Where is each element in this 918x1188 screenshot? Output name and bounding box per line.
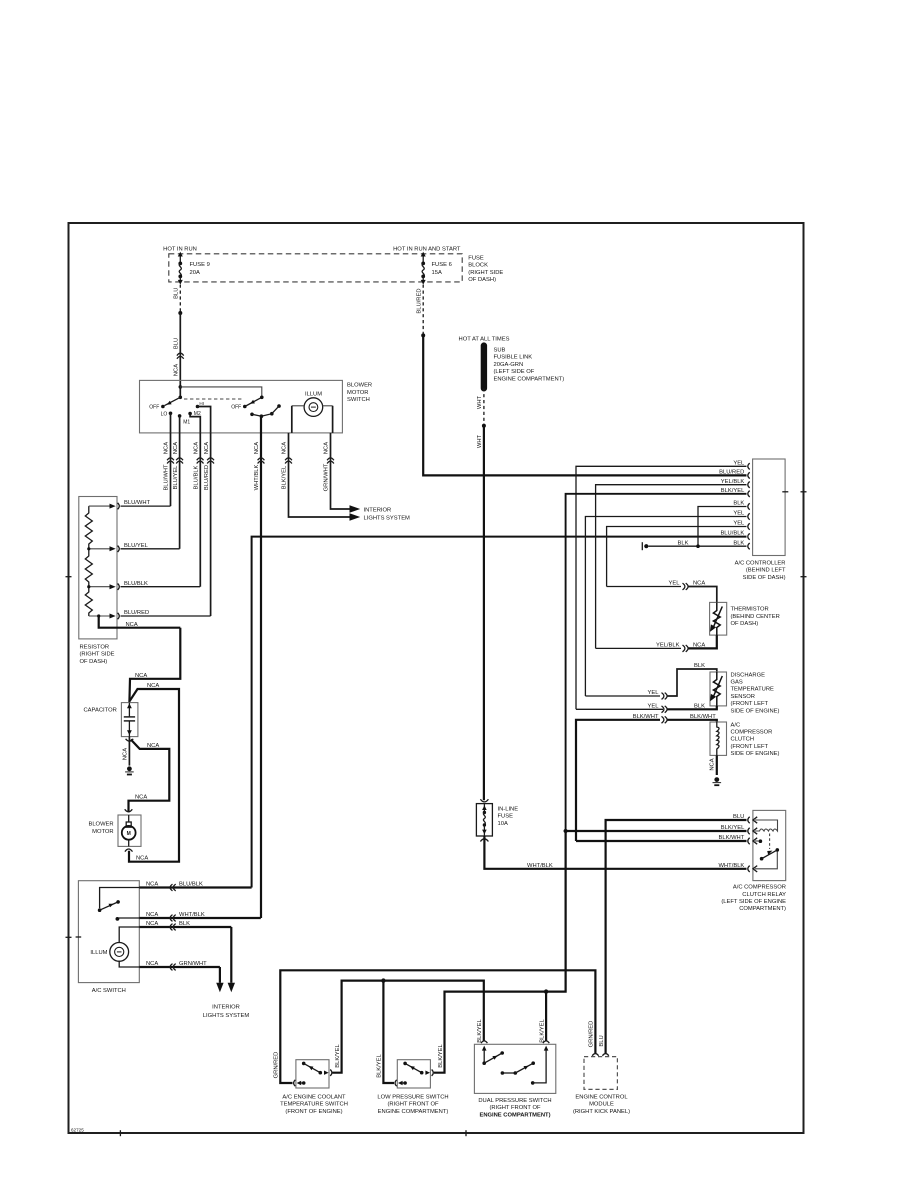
svg-text:ENGINE COMPARTMENT): ENGINE COMPARTMENT) bbox=[479, 1112, 550, 1118]
switch 2 arm bbox=[245, 397, 262, 406]
ground bbox=[127, 766, 132, 771]
svg-text:BLU: BLU bbox=[174, 338, 180, 349]
wire BLK/WHT to compressor clutch bbox=[576, 720, 660, 841]
wire BLK pin9 to ground bbox=[649, 545, 747, 547]
svg-text:NCA: NCA bbox=[204, 442, 210, 454]
terminal wire BLK bbox=[139, 926, 231, 928]
svg-text:WHT/BLK: WHT/BLK bbox=[719, 863, 745, 869]
wire WHT/BLK from switch 2 down to A/C switch bbox=[260, 416, 262, 918]
wire BLK/YEL coolant switch to dual pressure switch bbox=[333, 981, 484, 1073]
splice dot bbox=[178, 311, 182, 315]
svg-text:SIDE OF ENGINE): SIDE OF ENGINE) bbox=[731, 708, 780, 714]
svg-text:A/C CONTROLLER: A/C CONTROLLER bbox=[735, 560, 786, 566]
svg-text:TEMPERATURE: TEMPERATURE bbox=[731, 687, 775, 693]
relay pin connectors bbox=[748, 817, 750, 823]
svg-text:CLUTCH: CLUTCH bbox=[731, 737, 755, 743]
A/C compressor clutch relay box bbox=[753, 810, 786, 880]
A/C switch arm bbox=[100, 902, 119, 910]
wire NCA capacitor to motor return bbox=[129, 689, 179, 862]
svg-text:CAPACITOR: CAPACITOR bbox=[84, 708, 117, 714]
discharge gas temperature sensor box bbox=[710, 672, 727, 706]
thermistor box (behind center of dash) bbox=[710, 602, 727, 635]
svg-text:IN-LINE: IN-LINE bbox=[498, 806, 519, 812]
svg-text:BLU/WHT: BLU/WHT bbox=[124, 500, 151, 506]
svg-text:OFF: OFF bbox=[231, 405, 241, 411]
svg-text:YEL: YEL bbox=[648, 703, 660, 709]
wire BLU/YEL from M1 to resistor bbox=[179, 433, 181, 549]
svg-text:WHT/BLK: WHT/BLK bbox=[254, 464, 260, 490]
wire NCA resistor to capacitor bbox=[129, 628, 180, 703]
svg-text:YEL/BLK: YEL/BLK bbox=[721, 479, 745, 485]
svg-text:DISCHARGE: DISCHARGE bbox=[731, 672, 766, 678]
svg-text:BLU/BLK: BLU/BLK bbox=[124, 581, 148, 587]
wire GRN/WHT down to interior lights bbox=[219, 967, 221, 983]
low pressure switch contacts bbox=[403, 1062, 407, 1066]
wire BLK/YEL low pressure to dual pressure bbox=[434, 992, 546, 1073]
wire NCA capacitor to motor top bbox=[129, 740, 170, 813]
svg-text:COMPRESSOR: COMPRESSOR bbox=[731, 730, 773, 736]
svg-text:NCA: NCA bbox=[173, 442, 179, 454]
capacitor box bbox=[121, 703, 137, 737]
relay core dashed bbox=[769, 834, 771, 850]
fuse 9 arrow down through box bottom bbox=[179, 276, 181, 280]
svg-text:NCA: NCA bbox=[146, 921, 158, 927]
svg-text:LOW PRESSURE SWITCH: LOW PRESSURE SWITCH bbox=[377, 1094, 448, 1100]
capacitor symbol bbox=[128, 703, 130, 717]
svg-text:BLK: BLK bbox=[694, 663, 705, 669]
svg-text:SUB: SUB bbox=[494, 348, 506, 354]
dual pressure connector left bbox=[481, 1041, 487, 1043]
wire from LO bbox=[170, 413, 172, 433]
wire BLK/YEL relay bbox=[566, 830, 747, 832]
svg-text:INTERIOR: INTERIOR bbox=[364, 507, 392, 513]
tap terminal BLU/YEL bbox=[110, 546, 116, 551]
svg-text:MOTOR: MOTOR bbox=[347, 390, 368, 396]
svg-text:NCA: NCA bbox=[693, 643, 705, 649]
wire BLU relay to ECM bbox=[606, 820, 747, 1053]
svg-text:A/C: A/C bbox=[731, 722, 741, 728]
svg-text:WHT: WHT bbox=[477, 434, 483, 448]
junction low pressure switch bbox=[381, 978, 385, 982]
terminal wire GRN/WHT bbox=[139, 966, 220, 968]
fuse 6 15A bbox=[421, 262, 425, 266]
svg-text:LIGHTS SYSTEM: LIGHTS SYSTEM bbox=[203, 1013, 250, 1019]
svg-text:BLU/BLK: BLU/BLK bbox=[720, 531, 744, 537]
svg-text:M: M bbox=[127, 831, 131, 837]
svg-text:BLK/WHT: BLK/WHT bbox=[633, 714, 659, 720]
fuse block (dashed box, right side of dash) bbox=[169, 254, 462, 282]
alignment tick on controller box bbox=[782, 491, 788, 493]
svg-text:MOTOR: MOTOR bbox=[92, 829, 113, 835]
svg-text:BLK/YEL: BLK/YEL bbox=[282, 465, 288, 489]
svg-text:GRN/WHT: GRN/WHT bbox=[324, 463, 330, 491]
resistor box (right side of dash) bbox=[79, 497, 117, 639]
svg-text:SIDE OF DASH): SIDE OF DASH) bbox=[743, 575, 786, 581]
ground bbox=[641, 542, 643, 550]
svg-text:15A: 15A bbox=[432, 270, 442, 276]
svg-text:BLU/BLK: BLU/BLK bbox=[179, 882, 203, 888]
arrow to interior lights system (lower) bbox=[350, 513, 361, 520]
svg-text:FUSE 6: FUSE 6 bbox=[432, 262, 452, 268]
svg-text:NCA: NCA bbox=[146, 912, 158, 918]
svg-text:LIGHTS SYSTEM: LIGHTS SYSTEM bbox=[364, 516, 411, 522]
wire from M2 bbox=[190, 414, 200, 433]
wire GRN/RED coolant switch to ECM bbox=[280, 970, 595, 1083]
engine control module dashed box bbox=[584, 1057, 617, 1090]
in-line fuse element bbox=[483, 804, 485, 812]
bulb wires bbox=[292, 405, 304, 407]
svg-text:OF DASH): OF DASH) bbox=[468, 277, 496, 283]
WHT/BLK contact bbox=[119, 917, 140, 919]
svg-text:YEL: YEL bbox=[733, 511, 745, 517]
switch 2 contact row bbox=[250, 413, 254, 417]
svg-text:DUAL PRESSURE SWITCH: DUAL PRESSURE SWITCH bbox=[478, 1098, 551, 1104]
wire BLK pin5 bbox=[698, 507, 747, 547]
svg-text:NCA: NCA bbox=[254, 442, 260, 454]
wire YEL/BLK pin3 bbox=[596, 485, 747, 649]
svg-text:(RIGHT SIDE: (RIGHT SIDE bbox=[80, 652, 115, 658]
svg-text:BLU/YEL: BLU/YEL bbox=[124, 543, 149, 549]
wire YEL pin6 bbox=[585, 517, 746, 697]
svg-text:BLK/YEL: BLK/YEL bbox=[477, 1018, 483, 1042]
terminal wire WHT/BLK bbox=[139, 917, 260, 919]
svg-text:NCA: NCA bbox=[164, 442, 170, 454]
svg-text:NCA: NCA bbox=[147, 683, 159, 689]
svg-text:INTERIOR: INTERIOR bbox=[212, 1005, 240, 1011]
thermistor symbol bbox=[713, 602, 720, 635]
motor connector bbox=[125, 809, 133, 812]
border frame bbox=[69, 223, 804, 1133]
svg-text:20GA-GRN: 20GA-GRN bbox=[494, 362, 524, 368]
svg-text:OFF: OFF bbox=[149, 405, 159, 411]
blower motor switch box bbox=[140, 380, 343, 433]
svg-text:BLU/BLK: BLU/BLK bbox=[193, 465, 199, 489]
svg-text:FUSIBLE LINK: FUSIBLE LINK bbox=[494, 355, 533, 361]
wire BLU/RED to A/C controller bbox=[423, 335, 746, 475]
resistor tap wires bbox=[89, 505, 112, 507]
wire GRN/WHT from bulb to interior lights bbox=[331, 433, 350, 509]
svg-text:TEMPERATURE SWITCH: TEMPERATURE SWITCH bbox=[280, 1102, 348, 1108]
border alignment ticks bbox=[801, 491, 807, 493]
wire BLK down to interior lights bbox=[230, 927, 232, 983]
capacitor ground lead bbox=[128, 737, 130, 766]
svg-text:BLU/WHT: BLU/WHT bbox=[164, 464, 170, 491]
svg-text:BLK: BLK bbox=[179, 921, 190, 927]
svg-text:ILLUM: ILLUM bbox=[90, 950, 107, 956]
svg-text:(FRONT OF ENGINE): (FRONT OF ENGINE) bbox=[285, 1109, 342, 1115]
low pressure switch box bbox=[397, 1060, 430, 1088]
svg-text:GRN/RED: GRN/RED bbox=[274, 1052, 280, 1079]
svg-text:CLUTCH RELAY: CLUTCH RELAY bbox=[742, 892, 786, 898]
controller pin connectors bbox=[748, 463, 750, 469]
contact M2 bbox=[188, 412, 192, 416]
svg-text:NCA: NCA bbox=[146, 961, 158, 967]
fuse 6 arrow down through box bottom bbox=[422, 276, 424, 280]
svg-text:BLK/YEL: BLK/YEL bbox=[335, 1043, 341, 1067]
svg-text:ENGINE CONTROL: ENGINE CONTROL bbox=[575, 1094, 628, 1100]
wire from HI bbox=[198, 407, 211, 433]
wire BLK/YEL junction to relay riser bbox=[546, 831, 566, 992]
dual pressure switch box bbox=[474, 1044, 555, 1093]
svg-text:BLU/RED: BLU/RED bbox=[719, 470, 744, 476]
svg-text:NCA: NCA bbox=[282, 442, 288, 454]
in-line fuse connector top bbox=[480, 799, 488, 802]
svg-text:BLK: BLK bbox=[733, 501, 744, 507]
contact M1 bbox=[178, 414, 182, 418]
wire WHT solid down to in-line fuse bbox=[483, 426, 485, 801]
sensor thermistor symbol bbox=[713, 672, 720, 706]
svg-text:WHT/BLK: WHT/BLK bbox=[527, 863, 553, 869]
arrow to interior lights system (upper) bbox=[350, 505, 361, 512]
wire BLU/RED from HI to resistor bbox=[210, 433, 212, 616]
svg-text:NCA: NCA bbox=[123, 748, 129, 760]
wire BLU solid to switch bbox=[179, 313, 181, 397]
wire BLK/WHT relay bbox=[576, 840, 747, 842]
svg-text:NCA: NCA bbox=[193, 442, 199, 454]
alignment tick on A/C switch box bbox=[76, 936, 82, 938]
svg-text:NCA: NCA bbox=[135, 673, 147, 679]
ECM connector GRN/RED bbox=[592, 1054, 598, 1056]
clutch coil symbol bbox=[717, 722, 719, 755]
svg-text:BLOWER: BLOWER bbox=[347, 383, 372, 389]
svg-text:THERMISTOR: THERMISTOR bbox=[731, 607, 769, 613]
dual pressure connector right bbox=[543, 1041, 549, 1043]
switch 1 pivot bbox=[179, 396, 183, 400]
svg-text:BLK/YEL: BLK/YEL bbox=[377, 1053, 383, 1077]
wire WHT/BLK from in-line fuse to relay bbox=[484, 836, 746, 869]
svg-text:WHT/BLK: WHT/BLK bbox=[179, 912, 205, 918]
svg-text:ENGINE COMPARTMENT): ENGINE COMPARTMENT) bbox=[494, 376, 565, 382]
svg-text:BLK: BLK bbox=[678, 540, 689, 546]
A/C switch contact wiring bbox=[100, 888, 140, 909]
svg-text:YEL: YEL bbox=[733, 521, 745, 527]
svg-text:RESISTOR: RESISTOR bbox=[80, 645, 110, 651]
wire YEL to thermistor bbox=[607, 586, 681, 588]
wire BLK/YEL pin4 bbox=[566, 494, 747, 992]
splice dot bbox=[421, 333, 425, 337]
svg-text:M1: M1 bbox=[183, 420, 190, 426]
fuse 6 arrow up bbox=[422, 256, 424, 263]
wire YEL pin7 bbox=[607, 527, 747, 587]
svg-text:ILLUM: ILLUM bbox=[305, 392, 322, 398]
svg-text:GRN/RED: GRN/RED bbox=[589, 1021, 595, 1048]
svg-text:SWITCH: SWITCH bbox=[347, 397, 370, 403]
dual pressure contacts bbox=[483, 1049, 485, 1063]
svg-text:HOT AT ALL TIMES: HOT AT ALL TIMES bbox=[459, 336, 510, 342]
svg-text:BLU: BLU bbox=[599, 1035, 605, 1046]
A/C controller box bbox=[753, 459, 786, 556]
contact HI bbox=[196, 405, 200, 409]
svg-text:OF DASH): OF DASH) bbox=[80, 659, 108, 665]
svg-text:(RIGHT KICK PANEL): (RIGHT KICK PANEL) bbox=[573, 1109, 630, 1115]
wire YEL to discharge sensor top bbox=[585, 695, 660, 697]
svg-text:GRN/WHT: GRN/WHT bbox=[179, 961, 207, 967]
svg-text:NCA: NCA bbox=[146, 882, 158, 888]
switch 2 contact OFF bbox=[243, 405, 247, 409]
svg-text:GAS: GAS bbox=[731, 680, 743, 686]
splice dot bbox=[482, 424, 486, 428]
svg-text:MODULE: MODULE bbox=[589, 1102, 614, 1108]
svg-text:BLU/RED: BLU/RED bbox=[124, 610, 149, 616]
wire NCA from resistor bottom bbox=[99, 616, 181, 628]
wire WHT dashed from fusible link bbox=[483, 388, 485, 426]
tap terminal BLU/BLK bbox=[110, 584, 116, 589]
svg-text:BLOWER: BLOWER bbox=[88, 822, 113, 828]
svg-text:(BEHIND CENTER: (BEHIND CENTER bbox=[731, 614, 780, 620]
svg-text:YEL: YEL bbox=[669, 581, 681, 587]
wire BLU/BLK up to controller bbox=[252, 537, 747, 888]
wire from M1 bbox=[179, 416, 181, 433]
svg-text:62725: 62725 bbox=[71, 1128, 84, 1133]
svg-text:(LEFT SIDE OF: (LEFT SIDE OF bbox=[494, 369, 535, 375]
svg-text:BLK: BLK bbox=[733, 540, 744, 546]
ECM connector BLU bbox=[602, 1054, 608, 1056]
wire BLU/WHT from LO to resistor bbox=[170, 433, 172, 506]
svg-text:WHT: WHT bbox=[477, 395, 483, 409]
svg-text:SENSOR: SENSOR bbox=[731, 694, 755, 700]
svg-text:SIDE OF ENGINE): SIDE OF ENGINE) bbox=[731, 751, 780, 757]
svg-text:NCA: NCA bbox=[135, 794, 147, 800]
A/C switch box bbox=[78, 881, 139, 983]
svg-text:BLU/RED: BLU/RED bbox=[204, 465, 210, 490]
svg-text:BLU/YEL: BLU/YEL bbox=[173, 465, 179, 490]
motor symbol bbox=[128, 815, 130, 822]
illumination bulb wiring bbox=[119, 927, 139, 943]
inline connector on BLU wire bbox=[177, 353, 184, 355]
svg-text:A/C ENGINE COOLANT: A/C ENGINE COOLANT bbox=[282, 1094, 346, 1100]
mechanical link dashed bbox=[184, 398, 242, 400]
terminal wire BLU/BLK bbox=[139, 886, 251, 888]
svg-text:COMPARTMENT): COMPARTMENT) bbox=[739, 906, 786, 912]
wire YEL/BLK from thermistor bbox=[689, 635, 717, 648]
svg-text:HOT IN RUN: HOT IN RUN bbox=[163, 247, 197, 253]
coolant switch contacts bbox=[302, 1062, 306, 1066]
svg-text:FUSE: FUSE bbox=[498, 814, 514, 820]
svg-text:FUSE: FUSE bbox=[468, 255, 484, 261]
contact LO bbox=[169, 412, 173, 416]
svg-text:YEL: YEL bbox=[733, 460, 745, 466]
A/C engine coolant temperature switch box bbox=[296, 1060, 329, 1088]
resistor element bbox=[85, 506, 92, 616]
sub fusible link 20GA-GRN bbox=[482, 343, 486, 347]
wire YEL pin1 bbox=[576, 466, 747, 709]
svg-text:(BEHIND LEFT: (BEHIND LEFT bbox=[746, 568, 786, 574]
relay coil bbox=[755, 820, 778, 829]
svg-text:(RIGHT FRONT OF: (RIGHT FRONT OF bbox=[388, 1102, 439, 1108]
svg-text:BLK: BLK bbox=[694, 703, 705, 709]
fuse 9 arrow up bbox=[179, 256, 181, 263]
in-line fuse connector bottom bbox=[480, 839, 488, 842]
fuse 9 20A bbox=[178, 262, 182, 266]
svg-text:YEL: YEL bbox=[648, 690, 660, 696]
wire BLU/RED dashed from fuse 6 bbox=[422, 285, 424, 336]
wire BLU/BLK from M2 to resistor bbox=[199, 433, 201, 587]
svg-text:NCA: NCA bbox=[174, 364, 180, 376]
clutch ground lead bbox=[716, 755, 718, 775]
svg-text:A/C COMPRESSOR: A/C COMPRESSOR bbox=[733, 885, 786, 891]
wire BLK/YEL from bulb to interior lights bbox=[289, 433, 350, 517]
contact OFF1 bbox=[161, 405, 165, 409]
svg-text:BLOCK: BLOCK bbox=[468, 263, 488, 269]
svg-text:HI: HI bbox=[199, 401, 204, 406]
svg-text:BLK/YEL: BLK/YEL bbox=[539, 1018, 545, 1042]
tap terminal BLU/WHT bbox=[110, 504, 116, 509]
wire to switch 2 bbox=[180, 387, 261, 396]
svg-text:FUSE 9: FUSE 9 bbox=[190, 262, 210, 268]
svg-text:A/C SWITCH: A/C SWITCH bbox=[92, 988, 126, 994]
svg-text:(LEFT SIDE OF ENGINE: (LEFT SIDE OF ENGINE bbox=[721, 899, 786, 905]
svg-text:(FRONT LEFT: (FRONT LEFT bbox=[731, 744, 769, 750]
wire YEL from sensor bottom bbox=[668, 706, 717, 709]
svg-text:BLK/YEL: BLK/YEL bbox=[438, 1043, 444, 1067]
svg-text:LO: LO bbox=[161, 412, 168, 418]
svg-text:HOT IN RUN AND START: HOT IN RUN AND START bbox=[393, 247, 461, 253]
svg-text:OF DASH): OF DASH) bbox=[731, 621, 759, 627]
svg-text:20A: 20A bbox=[190, 270, 200, 276]
svg-text:NCA: NCA bbox=[147, 743, 159, 749]
svg-text:ENGINE COMPARTMENT): ENGINE COMPARTMENT) bbox=[378, 1109, 449, 1115]
switch 1 input junction bbox=[179, 385, 183, 389]
switch 1 arm to OFF bbox=[165, 397, 181, 405]
svg-text:NCA: NCA bbox=[126, 622, 138, 628]
svg-text:BLU: BLU bbox=[174, 288, 180, 299]
svg-text:(FRONT LEFT: (FRONT LEFT bbox=[731, 701, 769, 707]
tap terminal BLU/RED bbox=[110, 614, 116, 619]
in-line fuse box bbox=[476, 804, 492, 836]
svg-text:10A: 10A bbox=[498, 821, 508, 827]
motor bottom connector bbox=[125, 849, 133, 852]
blower motor box bbox=[118, 815, 141, 846]
svg-text:YEL/BLK: YEL/BLK bbox=[656, 643, 680, 649]
wire BLU dashed from fuse 9 bbox=[179, 285, 181, 313]
svg-text:NCA: NCA bbox=[709, 758, 715, 770]
svg-text:(RIGHT FRONT OF: (RIGHT FRONT OF bbox=[490, 1105, 541, 1111]
svg-text:(RIGHT SIDE: (RIGHT SIDE bbox=[468, 270, 503, 276]
svg-text:NCA: NCA bbox=[136, 856, 148, 862]
svg-text:BLU/RED: BLU/RED bbox=[417, 288, 423, 313]
A/C compressor clutch box bbox=[710, 722, 727, 755]
svg-text:NCA: NCA bbox=[324, 442, 330, 454]
ground bbox=[714, 777, 719, 782]
relay switch contact bbox=[755, 840, 759, 842]
